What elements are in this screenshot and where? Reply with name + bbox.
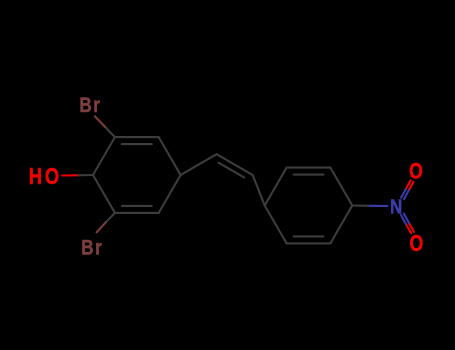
svg-text:Br: Br [79, 93, 101, 117]
wire bond C2'-C3' inner double [294, 174, 324, 176]
wire bond N=O top, blue halves [401, 189, 406, 198]
wire bond C2-C3 [115, 136, 159, 138]
wire bond C3'-C4' [330, 168, 352, 206]
wire bond C4'-C5' [330, 206, 352, 244]
wire bond C6-C1 [93, 175, 115, 213]
svg-text:N: N [390, 195, 402, 218]
dark red Br bonds [95, 116, 106, 232]
wire bond N-C4' blue half [370, 205, 387, 207]
label Br bottom [81, 236, 103, 260]
label Br top [79, 93, 101, 117]
wire bond C6'-C1' [265, 206, 287, 244]
wire bond C3-C4 [159, 137, 181, 175]
svg-text:O: O [45, 164, 59, 190]
blue bonds [370, 189, 409, 224]
wire bond N=O bottom, blue halves [401, 215, 406, 224]
left ring: 2,6-dibromophenol [77, 127, 370, 244]
wire bond C5-C6 inner double [122, 205, 152, 207]
wire bond C4'-N gray half [352, 204, 370, 206]
wire bond C1-O gray half [77, 174, 93, 176]
wire bond C2-Br gray half [105, 127, 115, 138]
wire bond C5-C6 [115, 212, 159, 214]
wire bond Cb-C1' [253, 175, 265, 206]
label HO (phenol) [29, 164, 59, 190]
wire bond N=O bottom, red halves [406, 224, 411, 233]
red bonds [62, 175, 414, 233]
wire bond C2-C3 inner double [122, 143, 152, 145]
label N (nitro) [390, 195, 402, 218]
svg-text:O: O [409, 160, 423, 185]
wire bond C4-C5 [159, 175, 181, 213]
wire bond O-C1 red half [62, 174, 77, 176]
wire bond Br-C2 dark red half [95, 116, 105, 126]
wire bond Ca=Cb main [217, 154, 253, 175]
svg-text:Br: Br [81, 236, 103, 260]
svg-text:H: H [29, 164, 42, 190]
wire bond Br-C6 dark red half [97, 222, 106, 232]
wire bond C1'-C2' [265, 168, 287, 206]
label O bottom (nitro) [410, 232, 424, 257]
wire bond C1-C2 [93, 137, 115, 175]
label O top (nitro) [409, 160, 423, 185]
svg-text:O: O [410, 232, 424, 257]
wire bond C2'-C3' [287, 167, 331, 169]
wire bond C6-Br gray half [106, 213, 115, 222]
wire bond C5'-C6' inner double [294, 235, 324, 237]
wire bond Ca=Cb inner double [219, 163, 245, 178]
wire bond C4-Ca [181, 154, 217, 175]
wire bond C5'-C6' [287, 242, 331, 244]
wire bond N=O top, red halves [406, 180, 411, 189]
